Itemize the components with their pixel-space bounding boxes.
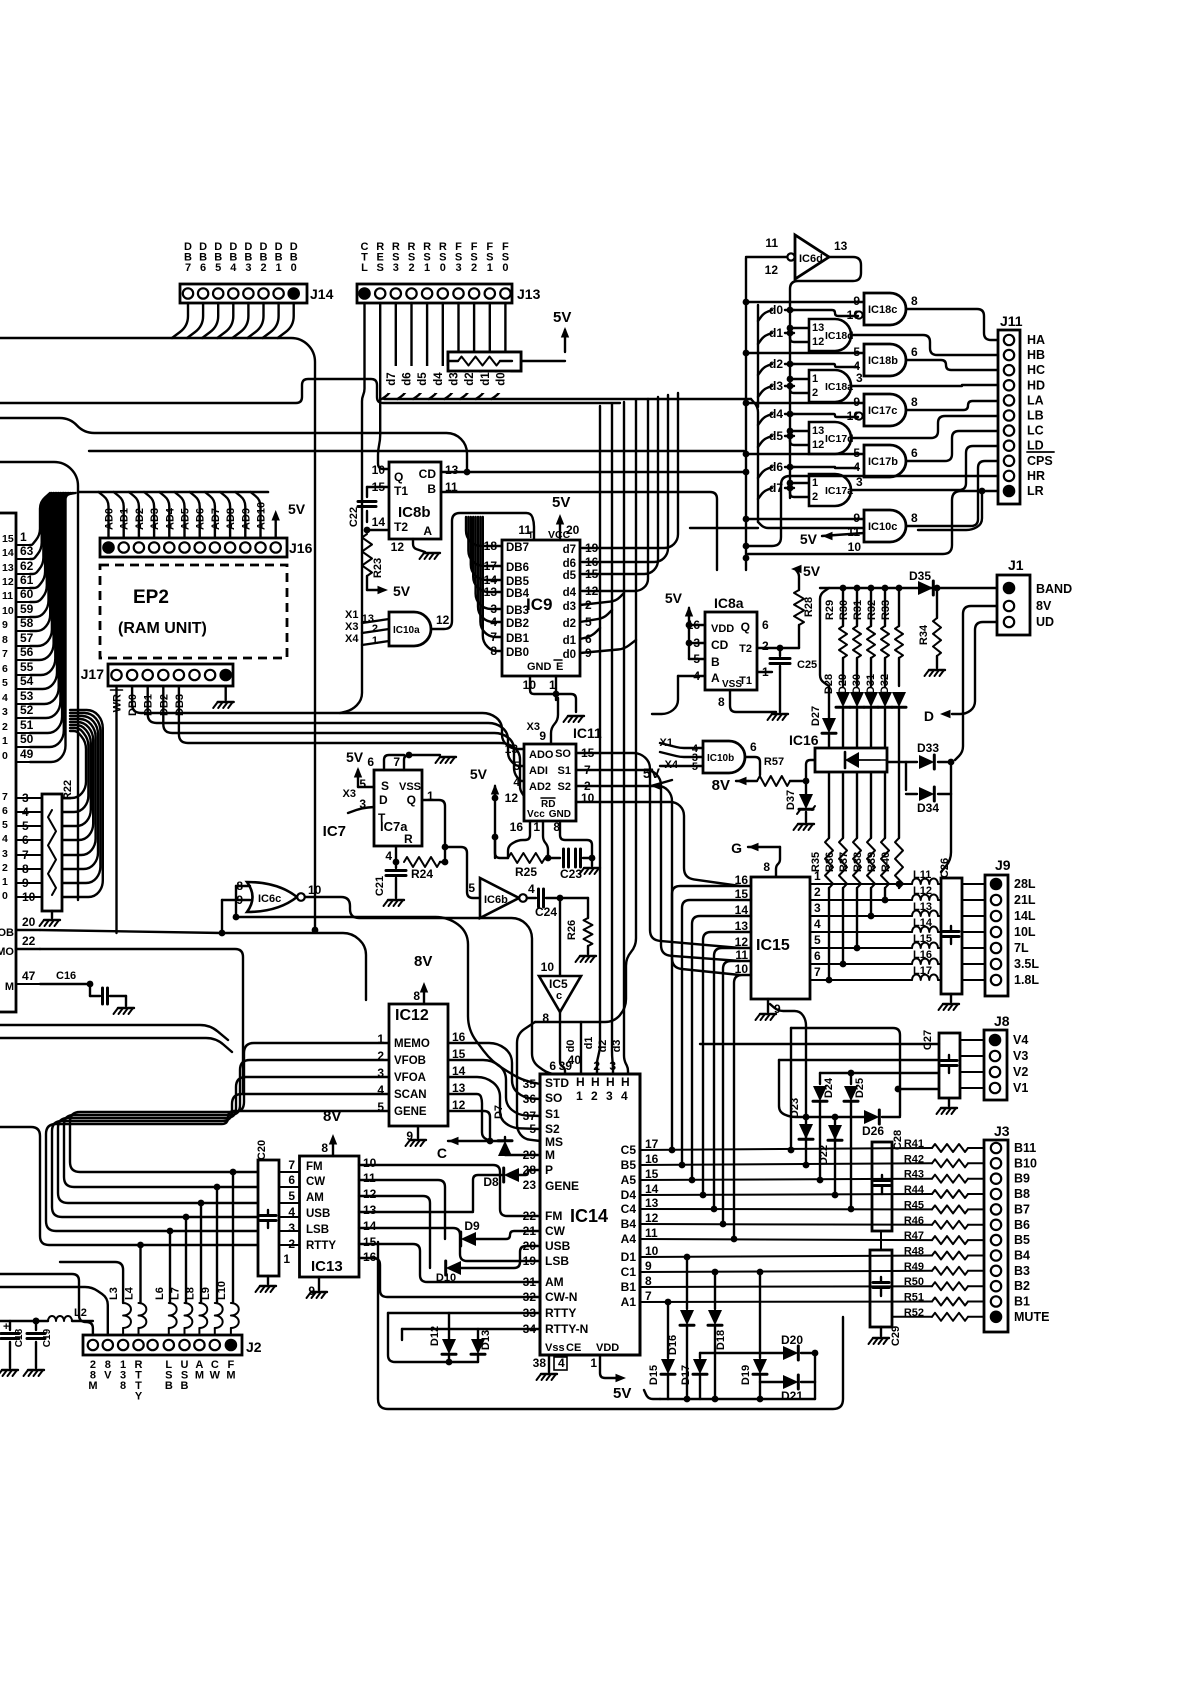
svg-text:5: 5 [468, 881, 475, 895]
svg-text:C25: C25 [797, 659, 817, 671]
svg-text:3: 3 [856, 371, 863, 385]
svg-text:X3: X3 [343, 788, 356, 800]
wire rail y949 [16, 948, 40, 950]
svg-text:5V: 5V [553, 309, 571, 326]
svg-text:CD: CD [419, 467, 437, 481]
svg-text:3: 3 [245, 262, 251, 274]
svg-text:5V: 5V [288, 501, 306, 517]
svg-text:R30: R30 [838, 600, 850, 620]
diode D7 [504, 1137, 506, 1141]
svg-text:47: 47 [22, 969, 36, 983]
svg-text:X3: X3 [527, 721, 540, 733]
svg-text:SO: SO [555, 748, 571, 760]
ic IC16 diode array [815, 748, 887, 772]
svg-text:J17: J17 [81, 666, 105, 682]
svg-text:IC10a: IC10a [393, 625, 420, 636]
svg-text:15: 15 [363, 1235, 377, 1249]
svg-text:GENE: GENE [545, 1179, 579, 1193]
svg-text:D21: D21 [781, 1389, 803, 1403]
svg-text:4: 4 [814, 917, 821, 931]
svg-text:STD: STD [545, 1076, 569, 1090]
svg-text:10L: 10L [1014, 925, 1036, 939]
svg-text:d1: d1 [769, 326, 783, 340]
svg-text:E: E [556, 661, 563, 673]
svg-text:IC18d: IC18d [825, 330, 854, 342]
svg-text:UD: UD [1036, 615, 1054, 629]
svg-text:2: 2 [471, 262, 477, 274]
svg-text:11: 11 [765, 236, 778, 250]
svg-text:B2: B2 [1014, 1279, 1030, 1293]
svg-text:8: 8 [911, 294, 918, 308]
svg-text:DB5: DB5 [506, 576, 530, 588]
diode D9 [461, 1232, 476, 1246]
svg-text:IC17b: IC17b [868, 456, 898, 468]
wire strobe rail from IC8b [745, 258, 747, 570]
svg-text:Vss: Vss [545, 1342, 565, 1354]
wire IC6b input [445, 847, 480, 898]
svg-text:6: 6 [367, 755, 374, 769]
svg-text:13: 13 [363, 1203, 377, 1217]
wire IC8b T2 [367, 529, 389, 531]
svg-text:D34: D34 [917, 801, 939, 815]
svg-text:d5: d5 [769, 429, 783, 443]
connector J13 [357, 284, 512, 303]
svg-text:12: 12 [363, 1187, 377, 1201]
svg-text:8: 8 [120, 1380, 126, 1392]
svg-text:d1: d1 [583, 1037, 595, 1050]
svg-text:IC17d: IC17d [825, 433, 854, 445]
wire J8 rows left [960, 1039, 984, 1041]
svg-text:D26: D26 [862, 1124, 884, 1138]
wire d corridor verticals to IC14 and IC9 [597, 406, 600, 1074]
svg-text:Vcc: Vcc [527, 809, 545, 820]
svg-text:C20: C20 [256, 1140, 268, 1160]
ic IC13 [300, 1156, 360, 1277]
diodes D12 D13 [448, 1313, 450, 1340]
connector J1 [997, 575, 1030, 635]
svg-text:C27: C27 [922, 1030, 934, 1050]
microcontroller IC14 [540, 1074, 640, 1355]
wire RTTY RTTY-N feeds [388, 1312, 540, 1314]
svg-text:C26: C26 [939, 858, 951, 878]
svg-text:12: 12 [765, 263, 779, 277]
svg-text:1: 1 [424, 262, 430, 274]
svg-text:C19: C19 [42, 1328, 53, 1347]
resistor R28 [798, 625, 800, 648]
svg-text:J14: J14 [310, 286, 334, 302]
svg-text:R23: R23 [372, 558, 384, 578]
svg-text:DB2: DB2 [506, 618, 529, 630]
wire J11 LR return [748, 491, 998, 554]
diode D26 [806, 1116, 864, 1118]
capacitor C19 [33, 1318, 40, 1325]
svg-text:51: 51 [20, 718, 34, 732]
svg-text:5V: 5V [346, 749, 364, 765]
diode D24 [819, 1073, 821, 1084]
svg-text:D9: D9 [464, 1219, 480, 1233]
svg-text:IC8b: IC8b [398, 504, 431, 521]
wire IC8b CD to strobe rail [441, 471, 746, 473]
svg-text:3: 3 [393, 262, 399, 274]
svg-text:IC6b: IC6b [484, 894, 508, 906]
svg-text:B4: B4 [621, 1217, 637, 1231]
svg-text:1: 1 [2, 876, 8, 888]
svg-text:IC6d: IC6d [799, 253, 823, 265]
wire gate outputs to J11 [906, 309, 998, 340]
svg-text:A4: A4 [621, 1232, 637, 1246]
svg-text:2: 2 [408, 262, 414, 274]
svg-text:2: 2 [2, 721, 8, 733]
inductors L3-L10 and wires [123, 1303, 131, 1328]
svg-text:S1: S1 [545, 1107, 560, 1121]
svg-text:1: 1 [2, 735, 8, 747]
capacitor C22 [367, 486, 389, 488]
wire J1 8V/UD lines [955, 606, 997, 760]
svg-text:49: 49 [20, 747, 34, 761]
svg-text:CW: CW [306, 1176, 325, 1188]
svg-text:(RAM UNIT): (RAM UNIT) [118, 620, 207, 637]
svg-text:11: 11 [847, 525, 860, 539]
svg-text:1.8L: 1.8L [1014, 973, 1039, 987]
svg-text:X3: X3 [345, 621, 358, 633]
wire J17 DB lines to IC11 [115, 686, 117, 933]
ground IC8a pin 8 [730, 690, 776, 712]
inverter IC6b [480, 878, 519, 918]
svg-text:6: 6 [2, 805, 8, 817]
svg-text:Y: Y [135, 1390, 143, 1402]
svg-text:4: 4 [2, 833, 8, 845]
wire diode cluster top rows [791, 1028, 900, 1116]
svg-text:R26: R26 [566, 920, 578, 940]
svg-text:5: 5 [288, 1189, 295, 1203]
svg-text:H: H [591, 1075, 600, 1089]
resistor network RA1 [448, 352, 521, 371]
svg-text:D25: D25 [854, 1078, 866, 1098]
svg-text:D32: D32 [879, 674, 891, 694]
svg-text:D1: D1 [621, 1250, 637, 1264]
wire IC15 left pins down to IC14 right rows [672, 886, 751, 1150]
wire bottom diode cluster D15-D21 [684, 1254, 691, 1261]
svg-text:DB6: DB6 [506, 562, 529, 574]
svg-text:GENE: GENE [394, 1106, 427, 1118]
svg-text:R34: R34 [918, 624, 930, 645]
svg-text:4: 4 [385, 849, 392, 863]
svg-text:L15: L15 [913, 933, 932, 945]
svg-text:IC10b: IC10b [707, 753, 734, 764]
svg-text:5V: 5V [800, 531, 818, 547]
svg-text:4: 4 [230, 262, 237, 274]
svg-text:S1: S1 [558, 765, 571, 777]
wire R57 to IC16 [806, 760, 815, 781]
resistor R26 [560, 897, 588, 899]
wire J13 d-bus [382, 303, 396, 399]
svg-text:P: P [545, 1163, 553, 1177]
svg-text:11: 11 [2, 590, 13, 602]
svg-text:H: H [606, 1075, 615, 1089]
svg-text:ADO: ADO [529, 749, 554, 761]
svg-text:A: A [423, 524, 432, 538]
svg-text:B1: B1 [1014, 1295, 1030, 1309]
svg-text:1: 1 [533, 820, 540, 834]
svg-text:14: 14 [363, 1219, 377, 1233]
svg-text:R38: R38 [852, 852, 864, 872]
svg-text:10: 10 [372, 463, 386, 477]
svg-text:9: 9 [585, 646, 592, 660]
svg-text:7: 7 [288, 1158, 295, 1172]
svg-text:5: 5 [2, 677, 8, 689]
svg-text:8: 8 [542, 1011, 549, 1025]
svg-text:USB: USB [306, 1208, 330, 1220]
svg-text:3.5L: 3.5L [1014, 957, 1039, 971]
wire J2 column drops with junction dots [230, 1169, 237, 1176]
wire IC8a pin1 T1 [757, 671, 772, 673]
svg-text:T2: T2 [394, 520, 408, 534]
svg-text:R31: R31 [852, 600, 864, 620]
svg-text:D13: D13 [480, 1330, 492, 1350]
svg-text:R39: R39 [866, 852, 878, 872]
svg-text:B: B [711, 655, 720, 669]
gate IC17b [864, 445, 906, 477]
svg-text:L17: L17 [913, 965, 932, 977]
svg-text:LA: LA [1027, 393, 1044, 407]
svg-text:VFOB: VFOB [394, 1055, 426, 1067]
wire IC11 S outputs to right [576, 753, 740, 948]
svg-text:D27: D27 [810, 706, 822, 726]
svg-text:IC18c: IC18c [868, 304, 897, 316]
svg-text:3: 3 [609, 1059, 616, 1073]
svg-text:C18: C18 [14, 1328, 25, 1347]
svg-text:Q: Q [394, 470, 403, 484]
resistor R23 [362, 534, 372, 576]
svg-text:V1: V1 [1013, 1081, 1028, 1095]
svg-text:L12: L12 [913, 885, 932, 897]
svg-text:2: 2 [812, 387, 818, 399]
svg-text:C4: C4 [621, 1202, 637, 1216]
svg-text:IC16: IC16 [789, 732, 819, 748]
svg-text:4: 4 [513, 775, 520, 789]
svg-text:V2: V2 [1013, 1065, 1028, 1079]
diodes D27-D32 [822, 718, 836, 733]
svg-text:23: 23 [523, 1178, 537, 1192]
svg-text:L4: L4 [124, 1286, 136, 1300]
ic IC15 [751, 877, 810, 999]
svg-text:D: D [379, 793, 388, 807]
svg-text:5: 5 [814, 933, 821, 947]
wire D27 top from rail [828, 686, 830, 690]
power 5V at J16 [275, 516, 277, 538]
svg-text:CW-N: CW-N [545, 1290, 577, 1304]
svg-text:d3: d3 [769, 379, 783, 393]
svg-text:GND: GND [549, 809, 571, 820]
svg-text:S2: S2 [558, 781, 571, 793]
svg-text:12: 12 [812, 439, 824, 451]
svg-text:D15: D15 [648, 1365, 660, 1385]
ground IC8b pin 12 [413, 539, 425, 552]
svg-text:B: B [427, 482, 436, 496]
svg-text:40: 40 [568, 1053, 582, 1067]
svg-text:D23: D23 [789, 1098, 801, 1118]
svg-text:L13: L13 [913, 901, 932, 913]
wire IC9 d0-d3 stub arcs [580, 628, 600, 639]
svg-text:7: 7 [2, 648, 8, 660]
and gate IC10b [703, 741, 745, 773]
svg-text:D4: D4 [621, 1188, 637, 1202]
svg-text:C16: C16 [56, 970, 76, 982]
svg-text:10: 10 [848, 540, 862, 554]
wire drops to coils [232, 1172, 234, 1303]
inverter IC6d [795, 235, 829, 279]
diode D10 [446, 1261, 461, 1275]
svg-text:DB0: DB0 [506, 647, 529, 659]
svg-text:L6: L6 [154, 1287, 166, 1300]
svg-text:16: 16 [645, 1152, 659, 1166]
svg-text:0: 0 [502, 262, 508, 274]
svg-text:R25: R25 [515, 865, 537, 879]
svg-text:Q: Q [407, 793, 416, 807]
wire IC7a S VSS loop [384, 755, 404, 770]
svg-text:D33: D33 [917, 741, 939, 755]
svg-text:HC: HC [1027, 363, 1045, 377]
svg-text:C29: C29 [890, 1326, 902, 1346]
svg-text:SCAN: SCAN [394, 1089, 427, 1101]
svg-text:19: 19 [585, 541, 599, 555]
svg-text:12: 12 [436, 613, 450, 627]
svg-text:9: 9 [2, 619, 8, 631]
svg-text:d6: d6 [402, 372, 414, 385]
svg-text:RTTY-N: RTTY-N [545, 1322, 588, 1336]
svg-text:R28: R28 [803, 597, 815, 617]
wire rail y933 from left [16, 929, 40, 931]
connector J14 [180, 284, 307, 303]
svg-text:AM: AM [306, 1192, 324, 1204]
svg-text:d1: d1 [480, 372, 492, 386]
nor gate IC6c [247, 882, 297, 912]
svg-text:MO: MO [0, 946, 14, 958]
svg-text:d6: d6 [563, 558, 576, 570]
svg-text:2: 2 [814, 885, 821, 899]
svg-text:5: 5 [585, 615, 592, 629]
svg-text:4: 4 [621, 1089, 628, 1103]
wire IC9 left pins hook bundle [466, 517, 502, 546]
svg-text:R29: R29 [824, 600, 836, 620]
svg-text:FM: FM [545, 1209, 562, 1223]
svg-text:IC17c: IC17c [868, 405, 897, 417]
svg-text:S2: S2 [545, 1122, 560, 1136]
diode D25 [848, 1070, 855, 1077]
diode D22 [832, 1114, 839, 1121]
svg-text:13: 13 [2, 562, 14, 574]
svg-text:d1: d1 [563, 635, 577, 647]
svg-text:3: 3 [606, 1089, 613, 1103]
svg-text:13: 13 [645, 1196, 659, 1210]
svg-text:2: 2 [2, 862, 8, 874]
svg-text:d6: d6 [769, 460, 783, 474]
svg-text:5V: 5V [803, 563, 821, 579]
wire bus line 4 [89, 450, 744, 452]
svg-text:8V: 8V [1036, 599, 1052, 613]
svg-text:LR: LR [1027, 484, 1044, 498]
svg-text:B: B [165, 1380, 173, 1392]
gate IC17c [864, 394, 906, 426]
svg-text:B3: B3 [1014, 1264, 1030, 1278]
svg-text:6: 6 [2, 663, 8, 675]
wire J11 HR return [748, 476, 998, 546]
svg-text:6: 6 [288, 1173, 295, 1187]
svg-text:DB7: DB7 [506, 542, 529, 554]
svg-text:12: 12 [585, 584, 599, 598]
svg-text:7: 7 [814, 965, 821, 979]
svg-text:6: 6 [200, 262, 206, 274]
svg-text:D12: D12 [429, 1326, 441, 1346]
svg-text:D24: D24 [823, 1077, 835, 1098]
wire d4-d7 verticals to IC9 [582, 399, 648, 591]
svg-text:8: 8 [911, 395, 918, 409]
svg-text:d2: d2 [769, 357, 783, 371]
diode D35 [918, 581, 933, 595]
svg-text:B11: B11 [1014, 1141, 1036, 1155]
svg-text:HR: HR [1027, 469, 1045, 483]
diode D34 [919, 787, 934, 801]
svg-text:DB4: DB4 [506, 588, 530, 600]
svg-text:L11: L11 [913, 869, 931, 881]
svg-text:8V: 8V [414, 953, 432, 970]
svg-text:CE: CE [566, 1342, 581, 1354]
svg-text:d2: d2 [597, 1040, 609, 1053]
svg-text:28L: 28L [1014, 877, 1036, 891]
svg-text:d4: d4 [433, 372, 445, 386]
wire bus line 2 [0, 379, 620, 403]
svg-text:5V: 5V [470, 766, 488, 782]
svg-text:59: 59 [20, 602, 34, 616]
svg-text:d3: d3 [611, 1040, 623, 1053]
wire gate input stubs [746, 301, 864, 303]
wire IC11 bottom pins [508, 821, 530, 858]
ground J17 last pin [224, 686, 226, 700]
svg-text:C1: C1 [621, 1265, 637, 1279]
svg-text:13: 13 [812, 322, 824, 334]
svg-text:16: 16 [510, 820, 524, 834]
svg-text:6: 6 [762, 618, 769, 632]
svg-text:B5: B5 [1014, 1233, 1030, 1247]
svg-text:IC18b: IC18b [868, 355, 898, 367]
svg-text:2: 2 [260, 262, 266, 274]
inductor L2 [48, 1316, 72, 1321]
svg-text:R24: R24 [411, 867, 433, 881]
svg-text:G: G [731, 840, 742, 856]
wire IC12 rows to IC14 hooks [448, 1043, 540, 1099]
svg-text:A5: A5 [621, 1173, 637, 1187]
svg-text:0: 0 [291, 262, 297, 274]
svg-text:B8: B8 [1014, 1187, 1030, 1201]
diode D33 [887, 761, 917, 763]
svg-text:d2: d2 [563, 618, 576, 630]
ic IC12 [389, 1004, 448, 1126]
svg-text:62: 62 [20, 559, 34, 573]
svg-text:CPS: CPS [1027, 454, 1053, 468]
svg-text:7L: 7L [1014, 941, 1029, 955]
svg-text:6: 6 [911, 345, 918, 359]
wire R22 to address bus [62, 731, 86, 798]
svg-text:12: 12 [391, 540, 405, 554]
connector J11 [998, 330, 1020, 504]
svg-text:V: V [104, 1370, 112, 1382]
gate IC18b [864, 344, 906, 376]
wire IC10a output to IC9 T [431, 513, 534, 629]
svg-text:4: 4 [558, 1356, 565, 1370]
ic IC11 [524, 744, 576, 821]
svg-text:5: 5 [215, 262, 221, 274]
and gate IC10a [389, 612, 431, 646]
